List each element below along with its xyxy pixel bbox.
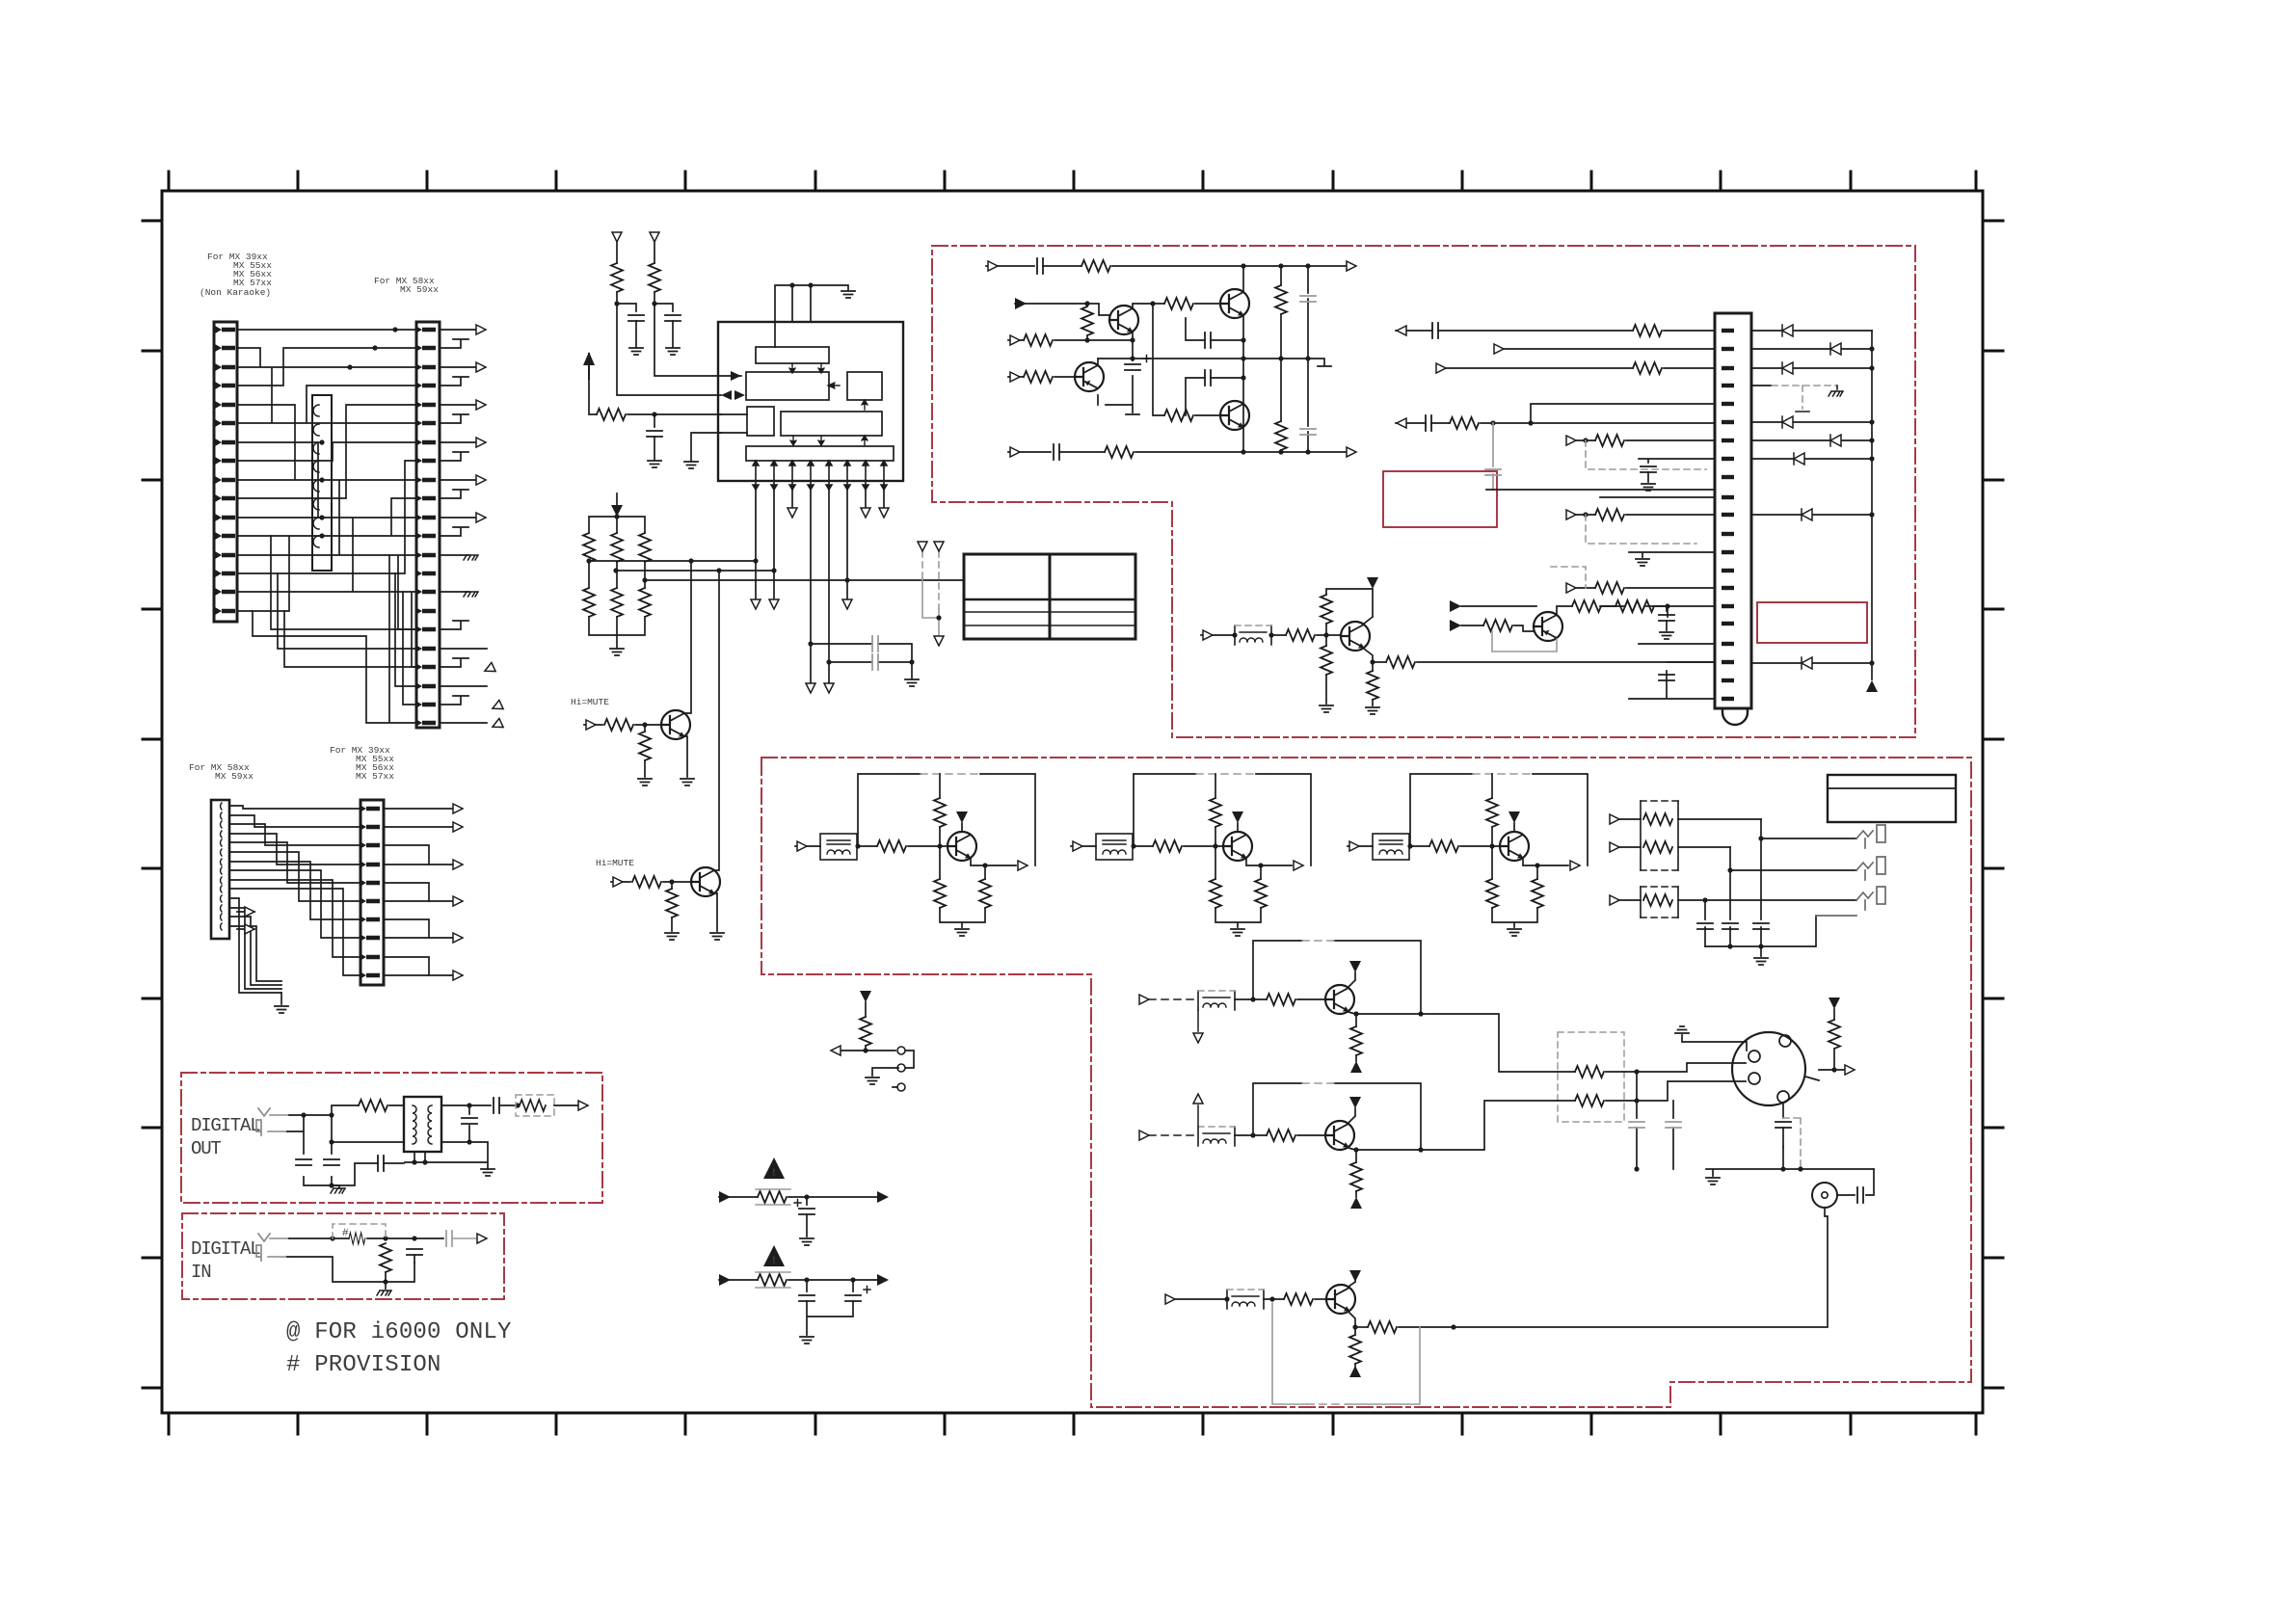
supply marker minus [1350, 1197, 1362, 1209]
junction [936, 615, 941, 620]
resistor Rb [1153, 840, 1182, 852]
wire [589, 562, 645, 588]
ground stub [280, 993, 282, 1004]
wire row2 [1055, 339, 1133, 341]
ground [666, 348, 680, 355]
border frame [162, 191, 1983, 1413]
cap drop CD2 [1672, 1101, 1674, 1169]
junction [1084, 337, 1135, 342]
inter-stage resistor R24 [1133, 304, 1164, 307]
chassis ground [385, 1282, 387, 1289]
load resistor R26 [1280, 266, 1282, 359]
ground [1706, 1178, 1720, 1184]
junction [1407, 843, 1494, 848]
ground [665, 933, 679, 940]
diode D4 [1751, 421, 1872, 423]
resistor Ru [1486, 798, 1498, 827]
IC inner arrows [789, 363, 868, 445]
capacitor C5 [872, 654, 878, 670]
DIN pins [1749, 1035, 1791, 1103]
tick marks left [143, 221, 162, 1388]
ground [866, 1078, 879, 1084]
resistor R31 [1286, 629, 1315, 641]
red dash-dot outline [181, 1073, 602, 1203]
resistor R21 [1081, 306, 1093, 335]
IC U1 body [718, 322, 903, 481]
wire [1317, 634, 1341, 636]
supply marker [1508, 811, 1520, 823]
resistor R37 [1615, 600, 1644, 612]
transistor Q12 [1220, 289, 1249, 318]
buffer stage 1 [795, 774, 1035, 936]
LC filter option box [1198, 991, 1235, 1010]
bottom row wire [1135, 451, 1347, 453]
ground [481, 1169, 494, 1176]
junction [863, 1048, 868, 1052]
resistor [1267, 1130, 1295, 1141]
row pin7 trio1 [1574, 439, 1715, 441]
diode D8 [1751, 662, 1872, 664]
wire collector [1237, 823, 1239, 832]
wire emitter [1348, 1312, 1355, 1370]
fusible resistor [758, 1191, 787, 1203]
row pin8 [1639, 459, 1715, 463]
resistor Ru [1210, 798, 1221, 827]
resistor R9 [639, 588, 651, 617]
DIN ground feed [1682, 1035, 1747, 1051]
transistor Q11 [1075, 362, 1104, 391]
resistor R7 [583, 588, 595, 617]
CN2 output arrows [440, 325, 487, 723]
decouple cap wires [811, 644, 912, 678]
wire [1195, 414, 1220, 416]
capacitor C10 [1037, 258, 1043, 274]
switch contact 2 [897, 1064, 905, 1072]
svg-text:OUT: OUT [191, 1138, 221, 1159]
cap 2 electrolytic [845, 1295, 861, 1301]
resistor Rd1 [1486, 879, 1498, 908]
junction [1084, 301, 1089, 306]
CN4 output arrows [384, 804, 463, 980]
wire [1409, 845, 1429, 847]
capacitor C2 [665, 315, 681, 321]
connector CN4 pins [360, 805, 380, 979]
resistor RJ1 [1643, 813, 1672, 825]
wire: emitter [1364, 649, 1715, 705]
ground [841, 291, 855, 298]
row pin19 [1668, 661, 1715, 663]
driver stage input arrow [1201, 634, 1235, 636]
wire [1297, 1134, 1325, 1136]
svg-text:DIGITAL: DIGITAL [191, 1115, 260, 1136]
wire: Q12 collector/emitter [1242, 266, 1244, 452]
diode D5 [1751, 439, 1872, 441]
ground [1231, 929, 1244, 936]
wire collector [1348, 1278, 1355, 1287]
cap CD1 [296, 1159, 311, 1165]
junction dots [319, 327, 397, 538]
connector CN5 pins [1722, 329, 1734, 701]
transistor Q [948, 832, 976, 861]
junction [642, 722, 647, 727]
wire: supply rail [1326, 589, 1373, 635]
wire: collector to bus [714, 571, 719, 931]
svg-text:Hi=MUTE: Hi=MUTE [571, 697, 609, 707]
wire [636, 321, 673, 347]
ground [800, 1238, 814, 1245]
ground [684, 462, 698, 468]
supply rail [1253, 941, 1421, 1014]
wire: collector out [1557, 606, 1572, 614]
wire [1514, 625, 1534, 631]
inter-stage wiring to DIN [1421, 998, 1874, 1327]
optional dashed box [333, 1224, 386, 1238]
transistor Q14 [1341, 622, 1370, 651]
resistor R32 [1321, 595, 1332, 624]
CN2 terminator bars [440, 339, 468, 705]
resistor RM1 [1575, 1066, 1604, 1078]
transistor Q13 [1220, 401, 1249, 430]
optional filter box [1235, 625, 1271, 645]
jack row 1 input [1617, 818, 1761, 820]
shield bus [1706, 1147, 1874, 1176]
optional resistor box [516, 1095, 554, 1116]
wire [663, 882, 691, 889]
junction [586, 558, 647, 582]
open down arrows below IC [788, 508, 797, 518]
wire [1315, 1298, 1326, 1300]
cap drop CD1 [1636, 1072, 1638, 1169]
ground [905, 679, 919, 686]
wire top row [1112, 265, 1347, 267]
resistor R12 [632, 876, 661, 888]
wire: Q10 emitter chain [1098, 333, 1139, 414]
supply arrow 1 [612, 232, 622, 242]
wire [857, 845, 877, 847]
cap CD5 [494, 1098, 499, 1113]
resistor R2 [649, 263, 660, 292]
IC internal block 2 [746, 372, 829, 400]
LC filter [1096, 834, 1133, 860]
transistor Q [1325, 1121, 1354, 1150]
resistor bank: supply [611, 505, 623, 517]
transistor Q10 [1109, 306, 1138, 334]
row pin2 [1504, 348, 1715, 350]
connector CN1 pins [215, 326, 235, 615]
supply up arrow [583, 352, 595, 379]
resistor Rb [1429, 840, 1458, 852]
secondary wire [441, 1105, 491, 1142]
wire out [1399, 1326, 1454, 1328]
output cap [446, 1231, 452, 1246]
capacitor CJ2 [1722, 923, 1738, 929]
resistor Rd2 [1532, 879, 1543, 908]
amp input arrow 3 [1008, 376, 1024, 378]
resistor Rd2 [979, 879, 991, 908]
svg-text:# PROVISION: # PROVISION [286, 1352, 441, 1378]
ground [681, 779, 694, 785]
junction [909, 659, 914, 664]
IC internal block 1 [756, 347, 829, 363]
capacitor CJ3 [1753, 923, 1769, 929]
arrow into IC [721, 371, 745, 400]
wire [908, 774, 948, 846]
wire [1235, 998, 1267, 1000]
fusible resistor [758, 1274, 787, 1286]
resistor R11 [639, 732, 651, 760]
option marker below [1197, 1010, 1199, 1031]
resistor array arcs [313, 405, 319, 547]
resistor RD1 [359, 1100, 387, 1111]
junction [1241, 263, 1310, 268]
resistor [1284, 1293, 1313, 1305]
warning circuit 1 [719, 1157, 889, 1245]
wire resistor to DIN [1606, 1063, 1746, 1101]
resistor RM2 [1575, 1095, 1604, 1106]
row pin1 [1396, 330, 1715, 332]
output arrow [554, 1104, 578, 1106]
wire [807, 1301, 853, 1335]
red dash-dot outline region 1 [932, 246, 1915, 737]
diode D1 [1751, 330, 1872, 332]
junction [614, 301, 656, 306]
LC filter [1373, 834, 1409, 860]
resistor R4 [583, 533, 595, 562]
buffer stage 2 [1071, 774, 1311, 936]
resistor R35 [1483, 620, 1512, 631]
warning triangle [763, 1157, 785, 1179]
matching resistor box [1558, 1032, 1624, 1122]
cap CI1 [407, 1249, 422, 1255]
supply marker [956, 811, 968, 823]
pull resistor [1829, 998, 1840, 1009]
cap drop C17 [1492, 423, 1494, 490]
row pin5 [1531, 404, 1715, 423]
driver stage 6 [1165, 1270, 1456, 1404]
red dash-dot outline [182, 1213, 504, 1299]
resistor array strip [312, 395, 332, 571]
supply rail [1410, 774, 1588, 865]
connector CN2 pins [415, 326, 436, 727]
base lower resistor R33 [1325, 635, 1327, 704]
wire collector [1348, 972, 1355, 987]
capacitor CJ1 [1697, 923, 1713, 929]
driver stage 4 [1139, 941, 1424, 1073]
wire [589, 379, 597, 414]
phone jack 1 [1856, 825, 1885, 848]
switch contact 1 [897, 1047, 905, 1054]
IC bottom pin arrows [753, 461, 887, 490]
wire into resistors [1558, 1072, 1575, 1101]
drop wires [1705, 819, 1856, 946]
diode D3 [1751, 367, 1872, 369]
supply marker minus [1349, 1366, 1361, 1377]
red annotation rect B [1757, 602, 1867, 643]
svg-text:IN: IN [191, 1262, 210, 1283]
signal table [964, 554, 1135, 639]
wire emitter/out [940, 846, 1016, 927]
wire [788, 1280, 877, 1291]
ground [275, 1006, 288, 1013]
IC internal block 5 [781, 412, 882, 436]
resistor R10 [604, 719, 633, 731]
driver stage 5 [1139, 1083, 1424, 1209]
electrolytic cap [799, 1209, 814, 1214]
supply rail [1253, 1083, 1421, 1150]
LC filter [820, 834, 857, 860]
wire [835, 1002, 914, 1087]
transistor Q1 mute [661, 710, 690, 739]
supply marker minus [1350, 1061, 1362, 1073]
mid rail [1098, 359, 1331, 366]
phone jack 3 [1816, 887, 1885, 916]
capacitor C3 [647, 431, 662, 437]
stage input arrow [1071, 845, 1096, 847]
stage input arrow [1165, 1294, 1175, 1304]
switch contact 3 [897, 1083, 905, 1091]
option marker above [1197, 1105, 1199, 1127]
wire [617, 242, 654, 263]
amp input arrow 2 [1008, 339, 1024, 341]
supply marker [1349, 1097, 1361, 1108]
mixer input arrows [1461, 606, 1536, 625]
wire [635, 725, 661, 732]
connector CN5 [1715, 313, 1751, 708]
row pin6 [1396, 422, 1715, 424]
amp input arrow bottom [1008, 451, 1051, 453]
junction [614, 514, 619, 519]
wire collector [961, 823, 963, 832]
ground [800, 1337, 814, 1344]
wire [654, 433, 721, 461]
feedback loop gray [1272, 1303, 1420, 1404]
wire: Q11 collector [1097, 359, 1099, 365]
resistor RI2 vertical [380, 1243, 391, 1272]
switch circuit [831, 991, 914, 1091]
wire: stage4 out drop [1421, 1014, 1558, 1072]
LC filter option box [1198, 1127, 1235, 1146]
svg-text:#: # [342, 1228, 349, 1239]
resistor R25 [1164, 410, 1193, 421]
amp input filled arrow [1015, 304, 1109, 315]
wire [1086, 335, 1088, 340]
bus wires to resistor bank [589, 561, 964, 580]
resistor R5 [611, 533, 623, 562]
wire: collector to bus [684, 561, 691, 777]
optical jack [256, 1108, 270, 1135]
stage input arrow [1348, 845, 1373, 847]
wire [806, 1214, 808, 1237]
resistor Rd2 [1255, 879, 1267, 908]
mute input arrow 2 [611, 881, 630, 883]
emitter return [1492, 631, 1557, 652]
resistor RJ2 [1643, 841, 1672, 853]
tick marks right [1983, 221, 2003, 1388]
DIN bottom cap [1782, 1103, 1784, 1147]
emitter resistor [1350, 1162, 1362, 1191]
transistor Q [1500, 832, 1529, 861]
resistor Rb [877, 840, 906, 852]
connector CN3 [211, 800, 229, 939]
jack row 3 input [1617, 899, 1856, 901]
row pin18 [1639, 643, 1715, 645]
wire: stage5 out drop [1421, 1101, 1558, 1150]
svg-text:!: ! [771, 1168, 778, 1180]
wire emitter/out [1215, 846, 1292, 927]
resistor RS1 [860, 1017, 871, 1046]
row pin10 [1600, 496, 1715, 498]
svg-text:MX 59xx: MX 59xx [215, 771, 254, 782]
electrolytic cap C11 [1125, 364, 1140, 370]
wire [1271, 634, 1286, 636]
svg-text:@ FOR i6000 ONLY: @ FOR i6000 ONLY [286, 1319, 512, 1345]
row pin15 trio3 [1574, 587, 1715, 589]
supply marker [1232, 811, 1243, 823]
capacitor C4 [872, 636, 878, 652]
junction [855, 843, 942, 848]
DIN connector [1732, 1032, 1805, 1105]
capacitor C1 [628, 315, 644, 321]
junctions on drop wires [688, 558, 849, 664]
ground [648, 461, 661, 467]
resistor RI1 [349, 1233, 365, 1244]
wire RCA down to stage6 out [1454, 1208, 1828, 1327]
wire [1297, 998, 1325, 1000]
lower resistor R27 [1280, 359, 1282, 452]
svg-text:MX 59xx: MX 59xx [400, 284, 439, 295]
transformer bottom pins [405, 1142, 488, 1169]
option box B [1641, 887, 1678, 918]
transistor Q [1223, 832, 1252, 861]
tick marks bottom [169, 1413, 1976, 1434]
resistor R22 [1024, 334, 1053, 346]
headphone jack block [1610, 775, 1956, 965]
connector CN5 bottom bump [1722, 708, 1748, 725]
resistor [1267, 994, 1295, 1005]
connector CN1 [214, 322, 237, 622]
IC top pins wires [775, 285, 848, 347]
ground [710, 933, 724, 940]
supply rail [858, 774, 1035, 865]
junction [789, 282, 813, 287]
emitter resistor [1349, 1335, 1361, 1364]
wire collector [1513, 823, 1515, 832]
wire [589, 617, 645, 648]
load cap C14 [1307, 266, 1309, 359]
output arrow left [831, 1046, 841, 1055]
svg-text:MX 57xx: MX 57xx [356, 771, 394, 782]
resistor RD2 [520, 1100, 546, 1111]
resistor R34 [1386, 656, 1415, 668]
input arrow [719, 1196, 758, 1198]
stage input arrow [1139, 995, 1149, 1004]
ground [1754, 958, 1768, 965]
wire [1184, 774, 1223, 846]
feedback cap C13 [1186, 378, 1243, 415]
svg-text:DIGITAL: DIGITAL [191, 1238, 260, 1260]
resistor Rd1 [1210, 879, 1221, 908]
row pin3 [1446, 367, 1715, 369]
ground [1508, 929, 1521, 936]
cap CD2 [324, 1159, 339, 1165]
pin drop wires [756, 490, 884, 683]
wire [617, 292, 747, 433]
option arrows [918, 542, 927, 551]
warning triangle [763, 1245, 785, 1266]
junction [669, 879, 674, 884]
ground [1366, 707, 1379, 714]
ground [629, 348, 643, 355]
